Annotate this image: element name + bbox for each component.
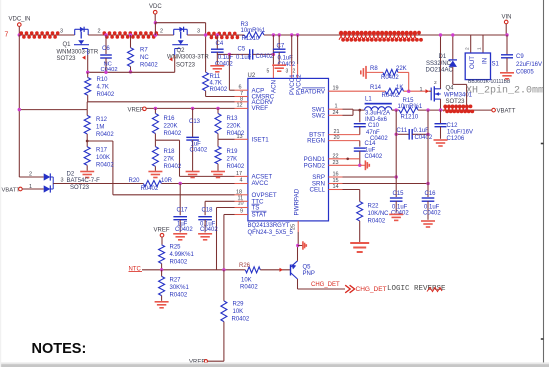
resistor R19 27K — [217, 139, 219, 146]
svg-text:SW2: SW2 — [312, 112, 326, 119]
wire PVCC2 pin 2 — [297, 35, 299, 64]
resistor R15 10mR — [399, 107, 418, 113]
resistor R16 220K — [154, 108, 156, 113]
connector S1 BBJ601K (XH 2pin) — [470, 35, 472, 53]
red marker at Q5 base — [280, 268, 283, 272]
svg-text:Q4: Q4 — [446, 86, 455, 92]
red marker at Q1 gate — [82, 56, 85, 60]
wire SW1 net — [329, 108, 343, 110]
wire ACN pin 5 — [272, 35, 274, 64]
red marker at Q2 gate — [169, 57, 172, 61]
off-page connector CHG_DET — [345, 285, 354, 293]
svg-text:C0402: C0402 — [391, 210, 409, 216]
junction CMSRC column — [204, 33, 207, 36]
junction C13 top — [191, 107, 194, 110]
wire PGND2 net — [329, 164, 360, 166]
junction PGND1 — [346, 158, 349, 161]
svg-text:R27: R27 — [170, 278, 182, 284]
svg-text:220K: 220K — [227, 124, 241, 130]
svg-text:2: 2 — [160, 29, 163, 35]
junction R7 bottom — [129, 70, 132, 73]
svg-text:220K: 220K — [164, 124, 178, 130]
svg-text:27K: 27K — [164, 157, 175, 163]
red braid scribble on VIN rail — [339, 33, 343, 40]
svg-text:1: 1 — [477, 47, 483, 50]
junction VDC_IN — [18, 33, 21, 36]
svg-text:BBJ601K-10111BB: BBJ601K-10111BB — [468, 79, 511, 85]
window edge left — [0, 0, 1, 367]
capacitor C9 22uF/16V — [506, 35, 508, 55]
wire NTC row — [142, 269, 245, 271]
svg-text:PWRPAD: PWRPAD — [294, 188, 301, 215]
svg-text:4.7K: 4.7K — [210, 80, 222, 86]
svg-text:3: 3 — [286, 69, 289, 75]
window edge bottom — [0, 364, 549, 367]
junction C5 right — [272, 53, 275, 56]
wire R29 to VREF bottom — [223, 322, 225, 362]
ground right of Q5 node — [298, 245, 303, 247]
resistor R13 220K — [217, 108, 219, 113]
svg-text:AVCC: AVCC — [252, 180, 269, 187]
svg-text:R17: R17 — [96, 148, 108, 154]
svg-text:0.1uF: 0.1uF — [414, 128, 430, 134]
svg-text:BAT54C-7-F: BAT54C-7-F — [67, 178, 101, 184]
svg-text:Q2: Q2 — [177, 48, 186, 54]
junction C11 left — [395, 133, 398, 136]
junction R12/R17 tap — [86, 140, 89, 143]
svg-text:R10: R10 — [97, 77, 109, 83]
wire Q1 pin2 to Q2 (red scribble) — [88, 34, 174, 36]
ground under C9 — [500, 72, 514, 74]
svg-text:3: 3 — [60, 29, 63, 35]
resistor R12 1M — [86, 110, 88, 116]
svg-text:CHG_DET: CHG_DET — [356, 286, 387, 293]
capacitor C7 0.1uF — [278, 35, 280, 49]
wire Q5 collector to CHG_DET — [297, 279, 299, 289]
svg-text:10mR%1: 10mR%1 — [241, 28, 266, 34]
svg-text:1uF: 1uF — [191, 141, 202, 147]
svg-text:VDC: VDC — [149, 4, 162, 10]
svg-text:XH_2pin_2.0mm: XH_2pin_2.0mm — [466, 85, 544, 97]
resistor R10 4.7K — [87, 72, 89, 77]
svg-text:9: 9 — [240, 208, 243, 214]
junction R25/R27 — [160, 268, 163, 271]
resistor R20 10R — [143, 181, 161, 187]
svg-text:C5: C5 — [238, 46, 246, 52]
junction SRN/C16 — [426, 182, 429, 185]
svg-text:QFN24-3_5X5_5: QFN24-3_5X5_5 — [248, 230, 294, 236]
wire OVPSET net — [113, 194, 235, 196]
svg-text:WNM3003-3TR: WNM3003-3TR — [57, 49, 99, 55]
svg-text:22K: 22K — [396, 66, 407, 72]
svg-text:R0402: R0402 — [97, 92, 115, 98]
svg-text:C11: C11 — [397, 128, 408, 134]
wire R15 to VBATT row — [418, 109, 444, 111]
capacitor C14 1uF — [359, 141, 361, 147]
svg-text:10K: 10K — [241, 278, 252, 284]
svg-text:LOGIC REVERSE: LOGIC REVERSE — [387, 285, 446, 293]
svg-text:R0402: R0402 — [96, 163, 114, 169]
svg-text:OUT: OUT — [469, 56, 476, 69]
svg-text:0.1uF: 0.1uF — [278, 55, 294, 61]
svg-text:SOT23: SOT23 — [176, 62, 196, 68]
capacitor C12 10uF/16V — [440, 110, 442, 124]
wire BATDRV net — [329, 90, 386, 92]
ground under C18 — [198, 233, 212, 235]
svg-text:SOT23: SOT23 — [70, 185, 90, 191]
wire Q2 gate to gate line — [174, 55, 176, 72]
wire SW2 net — [329, 114, 343, 116]
svg-text:R13: R13 — [227, 116, 239, 122]
transistor Q2 (P-MOSFET WNM3003-3TR) — [174, 28, 188, 30]
resistor R25 4.99K — [159, 245, 165, 264]
svg-text:C6: C6 — [102, 46, 110, 52]
wire R14 to Q4 gate — [404, 90, 429, 92]
svg-text:10uF/16V: 10uF/16V — [447, 129, 473, 135]
junction R16 top — [154, 107, 157, 110]
svg-text:DO214AC: DO214AC — [426, 68, 454, 74]
svg-text:R0402: R0402 — [164, 164, 182, 170]
capacitor C5 0.1uF — [229, 53, 249, 55]
svg-text:R0402: R0402 — [227, 164, 245, 170]
junction PGND — [358, 164, 361, 167]
svg-text:C16: C16 — [425, 191, 437, 197]
svg-text:25: 25 — [291, 224, 297, 230]
svg-text:C10: C10 — [368, 123, 380, 129]
svg-text:PGND2: PGND2 — [304, 162, 326, 169]
svg-text:2: 2 — [98, 29, 101, 35]
junction PVCC1 top — [290, 33, 293, 36]
junction D1 branch at VBATT — [465, 108, 468, 111]
capacitor C17 1uF — [179, 184, 181, 216]
svg-text:10R: 10R — [161, 178, 173, 184]
svg-text:10mR%1: 10mR%1 — [398, 104, 423, 110]
svg-text:TS: TS — [252, 205, 260, 212]
svg-text:C17: C17 — [177, 207, 189, 213]
wire ACP net — [228, 54, 230, 90]
svg-text:BATDRV: BATDRV — [300, 88, 325, 95]
svg-text:S1: S1 — [492, 62, 500, 68]
junction ACN column top — [272, 33, 275, 36]
ground under C15 — [389, 213, 403, 215]
ground under C7 — [272, 64, 286, 66]
wire Q5 emitter to ground node — [297, 246, 299, 261]
svg-text:D1: D1 — [439, 54, 447, 60]
junction R16/R18 tap — [155, 139, 179, 141]
svg-text:2: 2 — [464, 47, 470, 50]
wire Q1 gate down to gate line — [87, 55, 89, 72]
svg-text:3.3uH/2A: 3.3uH/2A — [365, 110, 390, 116]
svg-text:R0402: R0402 — [227, 131, 245, 137]
ground left of R8 — [365, 66, 367, 79]
svg-text:1K: 1K — [396, 85, 403, 91]
capacitor C16 0.1uF — [427, 110, 429, 197]
ground under C4 — [210, 65, 224, 67]
junction SRP column top — [395, 108, 398, 111]
junction AVCC / C17 — [179, 182, 182, 185]
capacitor C13 1uF — [192, 108, 194, 137]
svg-text:WNM3003-3TR: WNM3003-3TR — [167, 55, 209, 61]
wire CELL net — [329, 189, 343, 191]
svg-text:10K/NC: 10K/NC — [368, 211, 390, 217]
resistor R8 22K — [383, 69, 398, 75]
svg-text:R0402: R0402 — [96, 132, 114, 138]
svg-text:5: 5 — [267, 69, 270, 75]
svg-text:PNP: PNP — [303, 271, 315, 277]
wire VDC_IN to Q1 pin3 (red scribble) — [19, 34, 74, 36]
svg-text:C4: C4 — [216, 41, 224, 47]
resistor R7 (NC) — [130, 35, 132, 48]
junction R8/R14 — [407, 90, 410, 93]
junction C5 left — [228, 53, 231, 56]
wire ISET1 net — [218, 138, 235, 140]
svg-text:L1: L1 — [365, 97, 372, 103]
svg-text:0.1uF: 0.1uF — [236, 55, 252, 61]
svg-text:C0402: C0402 — [365, 154, 383, 160]
wire VIN rail verticals — [440, 35, 442, 89]
wire CMSRC net — [206, 96, 235, 98]
svg-text:VDC_IN: VDC_IN — [9, 17, 31, 23]
wire AVCC net — [161, 183, 234, 185]
junction PVCC2 top — [296, 33, 299, 36]
node VBATT terminal right — [492, 108, 496, 112]
svg-text:R0402: R0402 — [141, 186, 159, 192]
capacitor C6 (NC) — [105, 35, 107, 54]
svg-text:R0402: R0402 — [164, 131, 182, 137]
svg-text:C0402: C0402 — [256, 54, 274, 60]
svg-text:Q1: Q1 — [63, 42, 72, 48]
svg-text:CHG_DET: CHG_DET — [311, 282, 340, 288]
svg-text:IN: IN — [482, 58, 489, 64]
svg-text:C0402: C0402 — [200, 227, 218, 233]
junction C4 top — [216, 33, 219, 36]
transistor Q1 (P-MOSFET WNM3003-3TR) — [75, 28, 89, 30]
svg-text:C0402: C0402 — [423, 210, 441, 216]
red braid scribble on VBATT wire — [444, 106, 448, 111]
svg-text:C14: C14 — [365, 141, 377, 147]
resistor R27 30K — [161, 270, 163, 277]
svg-text:C9: C9 — [516, 54, 524, 60]
svg-text:30K%1: 30K%1 — [170, 285, 190, 291]
junction C10 SW — [358, 109, 361, 112]
svg-text:12: 12 — [237, 102, 243, 108]
transistor Q5 PNP — [290, 265, 292, 276]
wire Q2 pin3 to R3 (red scribble) — [187, 34, 244, 36]
svg-text:CELL: CELL — [310, 187, 326, 194]
svg-text:SOT23: SOT23 — [446, 99, 466, 105]
svg-text:BQ24133RGYT: BQ24133RGYT — [248, 223, 290, 229]
junction R7 top — [129, 33, 132, 36]
svg-text:R18: R18 — [164, 149, 176, 155]
svg-text:R0402: R0402 — [382, 93, 400, 99]
svg-text:R7: R7 — [140, 48, 148, 54]
wire R8 to R14 junction — [398, 71, 409, 73]
svg-text:R0402: R0402 — [210, 87, 228, 93]
capacitor C11 0.1uF — [396, 133, 409, 135]
wire SRN net — [329, 183, 343, 185]
svg-text:R0402: R0402 — [240, 285, 258, 291]
wire TS net — [217, 207, 235, 209]
svg-text:VIN: VIN — [502, 14, 512, 20]
resistor R26 10K — [245, 267, 260, 273]
svg-text:4.7K: 4.7K — [97, 85, 109, 91]
svg-text:3: 3 — [197, 29, 200, 35]
wire R3 to VIN rail — [264, 34, 507, 36]
svg-text:SS32/NC: SS32/NC — [426, 61, 452, 67]
svg-text:C1206: C1206 — [447, 136, 465, 142]
svg-text:R22: R22 — [368, 203, 380, 209]
svg-text:27K: 27K — [227, 157, 238, 163]
wire Q4 source to VBATT row — [440, 99, 442, 110]
ground under R18 — [148, 171, 162, 173]
svg-text:R20: R20 — [129, 178, 141, 184]
wire VDC to CMSRC branch — [154, 23, 156, 35]
resistor R17 100K — [86, 141, 88, 147]
svg-text:STAT: STAT — [252, 212, 267, 219]
op-amp U2 BQ24133RGYT (charger IC box) — [248, 78, 329, 221]
wire L1 to R15 — [392, 109, 399, 111]
ground right of PGND — [360, 164, 366, 166]
svg-text:R26: R26 — [239, 263, 251, 269]
transistor Q4 WPM3401 N-MOSFET — [430, 88, 432, 101]
sheet border right — [543, 0, 545, 363]
wire SW node to L1 — [353, 109, 365, 111]
wire STAT net — [224, 214, 235, 216]
junction SRN column top — [426, 108, 429, 111]
junction C11 right — [426, 133, 429, 136]
svg-text:C12: C12 — [447, 123, 459, 129]
ground under C17 — [173, 233, 187, 235]
resistor R29 10K — [223, 270, 225, 301]
svg-text:R0402: R0402 — [232, 317, 250, 323]
svg-text:R16: R16 — [164, 116, 176, 122]
svg-text:VBATT: VBATT — [2, 188, 21, 194]
svg-text:R19: R19 — [227, 149, 239, 155]
junction Q4 drain — [439, 33, 442, 36]
svg-text:C0402: C0402 — [175, 227, 193, 233]
junction gate line left — [86, 71, 89, 74]
junction SRP/C15 — [395, 175, 398, 178]
junction Q4 source — [439, 108, 442, 111]
svg-text:R0402: R0402 — [381, 75, 399, 81]
svg-text:22uF/16V: 22uF/16V — [516, 62, 542, 68]
svg-text:R0402: R0402 — [170, 293, 188, 299]
ground under C13 — [186, 171, 200, 173]
svg-text:C7: C7 — [277, 44, 285, 50]
svg-text:100K: 100K — [96, 155, 110, 161]
svg-text:R14: R14 — [370, 85, 382, 91]
svg-text:R11: R11 — [210, 74, 221, 80]
svg-text:R0402: R0402 — [368, 218, 386, 224]
svg-text:ACN: ACN — [271, 80, 278, 93]
wire BTST net — [329, 134, 360, 136]
red scribble over REVERSE — [427, 288, 442, 292]
wire PVCC1 pin 3 — [291, 35, 293, 64]
svg-text:R3: R3 — [241, 22, 249, 28]
svg-text:PVCC2: PVCC2 — [296, 74, 303, 95]
svg-text:VBATT: VBATT — [497, 108, 516, 114]
svg-text:R0402: R0402 — [170, 260, 188, 266]
wire R26 to Q5 base — [260, 269, 290, 271]
ground under C16 — [421, 220, 435, 222]
svg-text:1uF: 1uF — [365, 147, 376, 153]
svg-text:SOT23: SOT23 — [57, 56, 77, 62]
junction PWRPAD/Q5/ground — [296, 244, 299, 247]
svg-text:1M: 1M — [96, 125, 104, 131]
wire PGND1 net — [329, 158, 360, 160]
wire SRP net — [329, 176, 343, 178]
svg-text:R1210: R1210 — [242, 36, 260, 42]
svg-text:REGN: REGN — [307, 138, 325, 145]
svg-text:R12: R12 — [96, 117, 108, 123]
junction VDC_IN vertical — [18, 108, 21, 111]
svg-text:C15: C15 — [393, 191, 405, 197]
svg-text:1: 1 — [420, 87, 423, 93]
svg-text:2: 2 — [434, 80, 437, 86]
wire VBATT row — [444, 109, 492, 111]
capacitor C4 0.1uF — [216, 35, 218, 49]
svg-text:0.1uF: 0.1uF — [218, 55, 234, 61]
svg-text:VREF: VREF — [128, 107, 144, 113]
ground under R19 — [211, 171, 225, 173]
capacitor C10 47nF — [359, 110, 361, 122]
wire ACSET net — [180, 175, 235, 177]
svg-text:NOTES:: NOTES: — [32, 341, 87, 357]
diode D2 BAT54C-7-F (dual) — [19, 176, 43, 178]
inductor L1 3.3uH/2A — [365, 103, 392, 105]
resistor R14 1K — [385, 88, 403, 94]
svg-text:R8: R8 — [370, 66, 378, 72]
svg-text:C0402: C0402 — [190, 148, 208, 154]
svg-text:R0402: R0402 — [140, 63, 158, 69]
junction VDC — [154, 21, 157, 24]
junction VDC tap — [154, 33, 157, 36]
resistor R22 10K/NC — [357, 202, 363, 221]
capacitor C18 0.1uF — [204, 201, 206, 215]
svg-text:3: 3 — [61, 177, 64, 183]
svg-text:C13: C13 — [189, 119, 201, 125]
junction C6 bottom — [104, 71, 107, 74]
capacitor C15 0.1uF — [395, 110, 397, 197]
wire PWRPAD pin 25 — [297, 221, 299, 232]
svg-text:U2: U2 — [248, 73, 256, 79]
wire TTC net — [205, 200, 234, 202]
red marker at Q4 gate — [426, 89, 429, 93]
svg-text:VREF: VREF — [252, 105, 269, 112]
svg-text:C0402: C0402 — [215, 62, 233, 68]
diode D1 SS32 — [452, 35, 454, 59]
svg-text:D2: D2 — [67, 171, 75, 177]
junction C6 top — [104, 33, 107, 36]
svg-text:R1210: R1210 — [401, 115, 419, 121]
wire common gate line — [88, 71, 175, 73]
ground under C12 — [434, 139, 448, 141]
svg-text:2: 2 — [293, 69, 296, 75]
ground under R27 — [155, 301, 169, 303]
resistor R18 27K — [154, 140, 156, 146]
ground under R22 — [350, 242, 369, 244]
ground under R17 — [80, 171, 94, 173]
wire D1 anode to VBATT — [452, 67, 454, 85]
junction R13 top — [216, 107, 219, 110]
resistor R3 10mR — [244, 32, 264, 38]
svg-text:C0402: C0402 — [415, 135, 433, 141]
wire REGN net — [329, 140, 360, 142]
svg-text:VREF: VREF — [154, 227, 170, 233]
wire VREF rail — [146, 107, 234, 109]
svg-text:7: 7 — [5, 32, 9, 39]
junction C7 top — [278, 33, 281, 36]
